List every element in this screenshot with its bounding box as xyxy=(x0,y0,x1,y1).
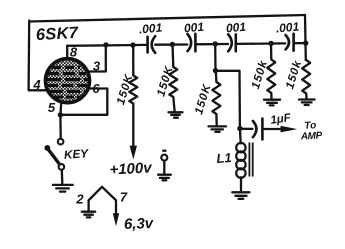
svg-text:1μF: 1μF xyxy=(270,112,293,127)
ground heater pin2 xyxy=(82,211,95,213)
ground R2 xyxy=(169,111,183,113)
node R2/bus xyxy=(170,42,175,47)
key switch K1 xyxy=(44,139,64,170)
resistor R2 xyxy=(169,45,177,112)
key switch bottom contact xyxy=(59,164,65,170)
tube V1 envelope ring xyxy=(46,59,90,103)
svg-text:.001: .001 xyxy=(138,20,163,36)
tube internal streaks xyxy=(52,66,80,69)
svg-text:6: 6 xyxy=(92,81,100,96)
svg-text:5: 5 xyxy=(48,100,56,115)
svg-text:2: 2 xyxy=(75,192,84,207)
svg-text:150k: 150k xyxy=(284,59,304,91)
wire bus segment B xyxy=(155,43,187,46)
wire right border down to R5 xyxy=(304,15,307,60)
wire bus segment C xyxy=(196,43,228,46)
terminal post minus dash xyxy=(162,150,166,152)
wire top border xyxy=(29,15,305,22)
node right corner/bus xyxy=(303,40,308,45)
node pin3/bus xyxy=(103,42,108,47)
node L1/1uF xyxy=(237,126,242,131)
key switch lever arm xyxy=(48,150,59,164)
svg-text:6,3v: 6,3v xyxy=(124,215,155,233)
capacitor C4 .001 plates xyxy=(286,35,290,50)
wire pin 5 lead to key xyxy=(59,103,62,138)
wire bus segment A xyxy=(67,44,146,47)
resistor R1 xyxy=(129,45,137,147)
inductor L1 core lines xyxy=(248,143,250,177)
svg-text:150k: 150k xyxy=(250,59,270,91)
ground L1 xyxy=(232,191,249,193)
ground R4 xyxy=(264,99,280,101)
svg-text:6SK7: 6SK7 xyxy=(35,24,79,44)
wire pin 8 lead xyxy=(66,46,68,58)
tube V1 6SK7 envelope xyxy=(46,59,90,103)
wire 1uF to arrow xyxy=(264,128,284,130)
wire key to ground xyxy=(61,170,64,184)
ground key xyxy=(53,184,73,186)
wire bus segment D xyxy=(236,42,285,45)
svg-text:KEY: KEY xyxy=(63,146,89,162)
wire grid branch vertical xyxy=(214,44,217,71)
node R4/bus xyxy=(268,41,273,46)
capacitor C1 .001 plates xyxy=(146,37,149,53)
arrow 6.3v xyxy=(113,213,119,226)
node grid branch/bus xyxy=(213,41,218,46)
svg-text:+100v: +100v xyxy=(109,159,154,178)
grounds xyxy=(53,100,315,218)
ground R5 xyxy=(299,98,315,100)
svg-text:001: 001 xyxy=(183,20,204,36)
terminal post circle xyxy=(161,151,167,161)
arrow +100v xyxy=(130,146,137,160)
wire L1 bottom lead xyxy=(240,177,242,190)
svg-text:.001: .001 xyxy=(275,19,300,35)
wire left border and pin4 lead xyxy=(29,21,47,91)
svg-text:7: 7 xyxy=(120,190,128,205)
arrow to amp xyxy=(281,126,298,133)
ground terminal post xyxy=(158,174,171,176)
wire L1 top lead xyxy=(239,129,242,144)
svg-text:AMP: AMP xyxy=(300,130,323,142)
wire bus segment E xyxy=(294,42,305,44)
wire 1uF branch xyxy=(240,128,253,130)
resistor R5 xyxy=(302,60,310,99)
svg-text:150K: 150K xyxy=(193,82,214,116)
svg-text:3: 3 xyxy=(93,59,101,74)
wire grid branch horizontal xyxy=(216,71,240,129)
tube V1 stippled body xyxy=(47,60,89,102)
capacitor C3 001 plates xyxy=(228,34,232,51)
node R1/bus xyxy=(130,42,135,47)
node R3 branch xyxy=(213,68,218,73)
wire pin 6 lead xyxy=(60,89,107,115)
wire heater V xyxy=(89,187,116,215)
svg-text:L1: L1 xyxy=(216,150,232,166)
svg-text:001: 001 xyxy=(225,20,246,36)
resistor R4 xyxy=(267,43,275,98)
svg-text:8: 8 xyxy=(70,45,78,60)
wire pin 3 lead xyxy=(88,45,106,72)
key switch top contact xyxy=(58,139,64,145)
resistor R3 xyxy=(212,71,220,126)
capacitor C2 001 plates xyxy=(188,34,192,51)
key switch knob xyxy=(44,145,50,151)
inductor L1 coil loops xyxy=(236,143,245,152)
svg-text:4: 4 xyxy=(32,77,41,92)
node cathode/key xyxy=(58,112,63,117)
wire terminal post lead xyxy=(163,161,165,174)
capacitor C5 1uF plates xyxy=(253,121,257,137)
ground R3 xyxy=(209,125,227,127)
